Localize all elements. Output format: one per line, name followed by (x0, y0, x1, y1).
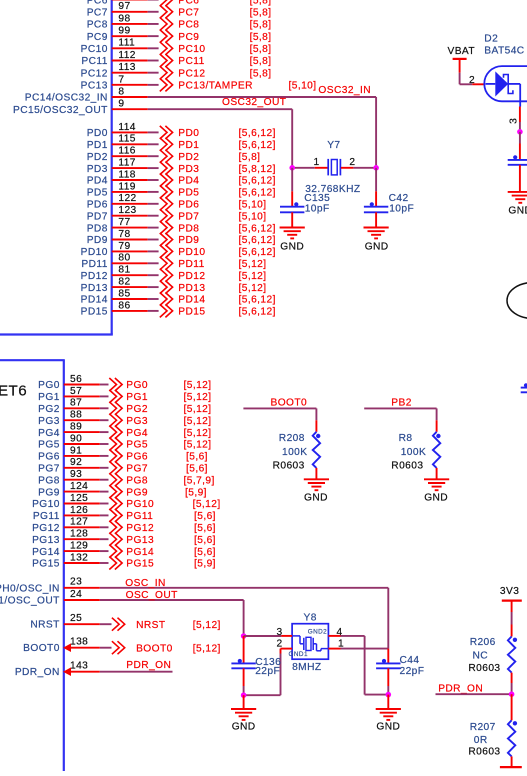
svg-text:PC8: PC8 (87, 20, 108, 31)
svg-text:57: 57 (70, 386, 82, 397)
IC pin PD10 (wire, pin number 79, off-page connector PD10 [5,6,12]) (81, 241, 276, 258)
svg-text:[5,6]: [5,6] (194, 523, 216, 534)
svg-text:98: 98 (118, 13, 130, 24)
ground symbol GND (C44) (376, 695, 401, 733)
svg-text:PD8: PD8 (178, 223, 199, 234)
svg-text:PC6: PC6 (178, 0, 199, 6)
IC pin PH1/OSC_OUT (pin 24), net OSC_OUT wire (0, 589, 244, 607)
IC pin PC12 (wire, pin number, off-page connector PC12 [5,8]) (81, 62, 272, 79)
svg-text:0R: 0R (474, 735, 488, 746)
svg-text:[5,6,12]: [5,6,12] (239, 140, 276, 151)
svg-text:PD15: PD15 (81, 307, 108, 318)
svg-text:GND2: GND2 (308, 628, 327, 635)
IC pin PG3 (wire, pin number 88, off-page connector PG3 [5,12]) (38, 410, 211, 427)
svg-text:[5,9]: [5,9] (185, 487, 207, 498)
resistor R206 NC R0603 (468, 625, 517, 695)
svg-text:81: 81 (118, 265, 130, 276)
IC pin PD5 (wire, pin number 119, off-page connector PD5 [5,6,12]) (87, 181, 276, 198)
svg-text:[5,9]: [5,9] (194, 559, 216, 570)
svg-text:123: 123 (118, 205, 136, 216)
node B: junction OSC32_IN / Y7.2 / C42 (373, 165, 379, 171)
svg-text:[5,8]: [5,8] (250, 7, 272, 18)
svg-text:PD6: PD6 (178, 200, 199, 211)
svg-text:NRST: NRST (136, 620, 165, 631)
svg-text:GND: GND (365, 242, 389, 253)
svg-text:[5,12]: [5,12] (193, 499, 221, 510)
svg-text:92: 92 (70, 457, 82, 468)
IC pin PG6 (wire, pin number 91, off-page connector PG6 [5,6]) (38, 445, 208, 462)
wire OSC32_OUT vertical to Y7 pin1 node (291, 109, 293, 168)
svg-text:[5,12]: [5,12] (193, 643, 221, 654)
svg-text:PD2: PD2 (178, 152, 199, 163)
svg-text:PG1: PG1 (126, 392, 148, 403)
svg-text:[5,6]: [5,6] (194, 511, 216, 522)
svg-text:PG2: PG2 (126, 404, 148, 415)
Y8 pin 3 (277, 627, 293, 638)
svg-text:PG13: PG13 (126, 535, 154, 546)
svg-text:PD3: PD3 (178, 164, 199, 175)
ground symbol GND (C135) (280, 228, 305, 253)
node D: junction OSC_OUT / Y8.3 / C136 (241, 633, 282, 639)
svg-text:PG10: PG10 (32, 499, 60, 510)
svg-text:114: 114 (118, 122, 136, 133)
svg-text:129: 129 (70, 541, 88, 552)
IC pin PG4 (wire, pin number 89, off-page connector PG4 [5,12]) (38, 422, 211, 439)
svg-text:OSC_IN: OSC_IN (125, 578, 165, 589)
svg-text:R0603: R0603 (391, 460, 423, 471)
svg-text:PG9: PG9 (38, 487, 60, 498)
svg-text:86: 86 (118, 300, 130, 311)
svg-text:PG14: PG14 (32, 547, 60, 558)
svg-text:PD12: PD12 (81, 271, 108, 282)
wire OSC_IN vertical to Y8 pin 1 (387, 588, 389, 649)
IC pin PG7 (wire, pin number 92, off-page connector PG7 [5,6]) (38, 457, 208, 474)
svg-text:[5,12]: [5,12] (193, 620, 221, 631)
svg-text:D2: D2 (484, 34, 498, 45)
svg-text:[5,8]: [5,8] (250, 44, 272, 55)
svg-text:PG1: PG1 (38, 392, 60, 403)
svg-text:100K: 100K (282, 447, 307, 458)
svg-text:PD9: PD9 (87, 235, 108, 246)
IC pin PD3 (wire, pin number 117, off-page connector PD3 [5,8,12]) (87, 158, 276, 175)
resistor R8 100K R0603 (391, 420, 440, 479)
svg-text:PD15: PD15 (178, 307, 205, 318)
IC pin PC10 (wire, pin number, off-page connector PC10 [5,8]) (81, 38, 272, 55)
IC pin PG9 (wire, pin number 124, off-page connector PG9 [5,9]) (38, 481, 207, 498)
svg-text:PDR_ON: PDR_ON (438, 684, 483, 695)
svg-text:PD0: PD0 (87, 128, 108, 139)
svg-text:116: 116 (118, 146, 136, 157)
svg-text:[5,8]: [5,8] (250, 32, 272, 43)
svg-text:R0603: R0603 (468, 747, 500, 758)
svg-text:OSC32_IN: OSC32_IN (318, 85, 371, 96)
svg-text:R0603: R0603 (273, 460, 305, 471)
svg-text:[5,8]: [5,8] (239, 152, 261, 163)
svg-text:113: 113 (118, 62, 136, 73)
svg-text:PG8: PG8 (38, 475, 60, 486)
wire OSC32_IN vertical to Y7 pin2 node (375, 97, 377, 168)
svg-text:[5,12]: [5,12] (184, 428, 212, 439)
svg-text:78: 78 (118, 229, 130, 240)
svg-text:56: 56 (70, 374, 82, 385)
svg-text:PG5: PG5 (38, 440, 60, 451)
svg-text:89: 89 (70, 422, 82, 433)
svg-text:NRST: NRST (30, 620, 59, 631)
IC pin PC15/OSC32_OUT (pin 9) wire, net OSC32_OUT (13, 97, 292, 116)
IC pin PD4 (wire, pin number 118, off-page connector PD4 [5,6,12]) (87, 169, 276, 186)
IC pin PD2 (wire, pin number 116, off-page connector PD2 [5,8]) (87, 146, 261, 163)
IC pin PG2 (wire, pin number 87, off-page connector PG2 [5,12]) (38, 398, 211, 415)
svg-text:PG12: PG12 (126, 523, 154, 534)
svg-text:GND: GND (232, 722, 256, 733)
svg-text:[5,6,12]: [5,6,12] (239, 295, 276, 306)
svg-text:124: 124 (70, 481, 88, 492)
svg-text:PD1: PD1 (178, 140, 199, 151)
svg-text:PD12: PD12 (178, 271, 205, 282)
crystal Y8 8MHZ (4-pin) (289, 613, 329, 673)
svg-text:C44: C44 (400, 655, 420, 666)
svg-text:8MHZ: 8MHZ (292, 662, 321, 673)
svg-text:[5,12]: [5,12] (184, 440, 212, 451)
IC pin PC13 (wire, pin number, off-page connector PC13/TAMPER [5,10]) (81, 74, 317, 91)
diode D2 BAT54C pin 2 (469, 75, 484, 86)
svg-text:[5,6]: [5,6] (186, 452, 208, 463)
IC pin PG0 (wire, pin number 56, off-page connector PG0 [5,12]) (38, 374, 211, 391)
svg-text:R8: R8 (399, 433, 413, 444)
svg-text:Y7: Y7 (327, 140, 340, 151)
Y8 pin 2 (GND1) wire (244, 638, 293, 695)
svg-text:GND: GND (376, 722, 400, 733)
svg-text:R0603: R0603 (468, 663, 500, 674)
svg-text:[5,8,12]: [5,8,12] (239, 164, 276, 175)
svg-text:[5,12]: [5,12] (239, 259, 267, 270)
svg-text:PD11: PD11 (81, 259, 107, 270)
svg-text:9: 9 (118, 99, 124, 110)
svg-text:PC7: PC7 (87, 7, 108, 18)
IC U1 box (lower part, PG bank), value ...ET6 (0, 360, 65, 771)
svg-text:PG11: PG11 (33, 511, 60, 522)
wire 3V3 to R206 (511, 612, 513, 625)
svg-text:C135: C135 (304, 193, 330, 204)
capacitor (partial, right edge near PB2) (521, 383, 527, 392)
svg-text:PC10: PC10 (178, 44, 205, 55)
svg-text:PD13: PD13 (81, 283, 108, 294)
IC pin PD15 (wire, pin number 86, off-page connector PD15 [5,6,12]) (81, 300, 276, 317)
capacitor C44 22pF (376, 649, 424, 695)
IC pin PD7 (wire, pin number 123, off-page connector PD7 [5,10]) (87, 205, 267, 222)
svg-text:126: 126 (70, 505, 88, 516)
svg-text:2: 2 (349, 157, 355, 168)
svg-text:[5,6,12]: [5,6,12] (239, 235, 276, 246)
IC pin PD14 (wire, pin number 85, off-page connector PD14 [5,6,12]) (81, 288, 276, 305)
svg-text:PD6: PD6 (87, 200, 108, 211)
svg-text:24: 24 (70, 589, 82, 600)
svg-text:[5,6,12]: [5,6,12] (239, 223, 276, 234)
svg-text:R206: R206 (470, 637, 496, 648)
svg-text:22pF: 22pF (400, 666, 425, 677)
IC U1 box (upper part, PC/PD bank) (0, 0, 113, 335)
svg-text:1: 1 (314, 157, 320, 168)
node A: junction OSC32_OUT / Y7.1 / C135 (289, 165, 295, 171)
svg-text:[5,12]: [5,12] (184, 404, 212, 415)
svg-text:PC9: PC9 (178, 32, 199, 43)
svg-text:PG0: PG0 (38, 380, 60, 391)
IC pin PD1 (wire, pin number 115, off-page connector PD1 [5,6,12]) (87, 134, 276, 151)
ground symbol GND (backup cap) (508, 192, 527, 217)
svg-text:[5,8]: [5,8] (250, 20, 272, 31)
node F: junction C44 / Y8.4 / GND (386, 692, 392, 698)
svg-text:PG8: PG8 (126, 475, 148, 486)
ground symbol GND (C136) (231, 695, 256, 732)
svg-text:GND: GND (424, 493, 448, 504)
svg-text:3V3: 3V3 (500, 586, 519, 597)
svg-text:PG4: PG4 (126, 428, 148, 439)
IC pin PC6 (wire, pin number, off-page connector PC6 [5,8]) (87, 0, 272, 6)
diode D2 BAT54C body (484, 34, 527, 107)
svg-text:PG10: PG10 (126, 499, 154, 510)
svg-text:PD9: PD9 (178, 235, 199, 246)
svg-text:BOOT0: BOOT0 (23, 643, 60, 654)
svg-text:PC11: PC11 (178, 56, 204, 67)
svg-text:PD2: PD2 (87, 152, 108, 163)
svg-text:115: 115 (118, 134, 136, 145)
svg-text:93: 93 (70, 469, 82, 480)
ground symbol GND (R208) (304, 479, 329, 503)
svg-text:100K: 100K (401, 447, 426, 458)
wire VBAT to D2 pin 2 (460, 73, 473, 85)
svg-text:PD10: PD10 (178, 247, 205, 258)
svg-text:[5,6]: [5,6] (194, 547, 216, 558)
svg-text:PG9: PG9 (126, 487, 148, 498)
svg-text:PD4: PD4 (178, 176, 199, 187)
svg-text:128: 128 (70, 529, 88, 540)
svg-text:[5,7,9]: [5,7,9] (184, 475, 215, 486)
node C: junction D2.3 / backup capacitor (517, 129, 523, 135)
IC pin PD9 (wire, pin number 78, off-page connector PD9 [5,6,12]) (87, 229, 276, 246)
svg-text:PC8: PC8 (178, 20, 199, 31)
svg-text:BOOT0: BOOT0 (136, 643, 173, 654)
IC pin PC7 (wire, pin number, off-page connector PC7 [5,8]) (87, 1, 272, 18)
svg-text:PC13: PC13 (81, 81, 108, 92)
svg-text:[5,10]: [5,10] (289, 81, 317, 92)
svg-text:PG5: PG5 (126, 440, 148, 451)
IC pin PG10 (wire, pin number 125, off-page connector PG10 [5,12]) (32, 493, 221, 510)
IC pin PD13 (wire, pin number 82, off-page connector PD13 [5,12]) (81, 277, 267, 294)
svg-text:111: 111 (118, 38, 135, 49)
svg-text:8: 8 (118, 86, 124, 97)
svg-text:25: 25 (70, 613, 82, 624)
svg-text:88: 88 (70, 410, 82, 421)
svg-text:PC12: PC12 (81, 68, 108, 79)
svg-text:91: 91 (70, 445, 82, 456)
svg-text:[5,6,12]: [5,6,12] (239, 128, 276, 139)
svg-text:143: 143 (70, 661, 88, 672)
svg-text:PC12: PC12 (178, 68, 205, 79)
svg-text:[5,6]: [5,6] (186, 464, 208, 475)
svg-text:PD0: PD0 (178, 128, 199, 139)
svg-text:77: 77 (118, 217, 130, 228)
svg-text:[5,12]: [5,12] (239, 271, 267, 282)
svg-text:[5,10]: [5,10] (239, 211, 267, 222)
IC pin PG13 (wire, pin number 128, off-page connector PG13 [5,6]) (32, 529, 216, 546)
svg-text:PC13/TAMPER: PC13/TAMPER (178, 81, 253, 92)
svg-text:PD3: PD3 (87, 164, 108, 175)
svg-text:[5,6,12]: [5,6,12] (239, 307, 276, 318)
Y8 pin 4 (GND2) wire (328, 627, 388, 695)
svg-text:85: 85 (118, 288, 130, 299)
svg-text:[5,12]: [5,12] (184, 416, 212, 427)
svg-text:[5,8]: [5,8] (250, 0, 272, 6)
wire OSC_OUT vertical to node D (243, 600, 245, 636)
svg-text:PD7: PD7 (178, 211, 199, 222)
svg-text:PD10: PD10 (81, 247, 108, 258)
IC pin PH0/OSC_IN (pin 23), net OSC_IN wire to Y8 (0, 577, 388, 595)
capacitor C135 10pF (280, 168, 330, 228)
svg-text:[5,12]: [5,12] (239, 283, 267, 294)
svg-text:[5,6,12]: [5,6,12] (239, 247, 276, 258)
IC pin PC8 (wire, pin number, off-page connector PC8 [5,8]) (87, 13, 272, 30)
svg-text:PG15: PG15 (126, 559, 154, 570)
svg-text:VBAT: VBAT (448, 46, 476, 57)
IC pin PG11 (wire, pin number 126, off-page connector PG11 [5,6]) (33, 505, 216, 522)
Y8 pin 1 wire (328, 638, 388, 649)
svg-text:[5,6]: [5,6] (194, 535, 216, 546)
svg-text:R207: R207 (470, 722, 496, 733)
svg-text:PH1/OSC_OUT: PH1/OSC_OUT (0, 596, 60, 607)
resistor R207 0R R0603 (468, 694, 517, 766)
svg-text:GND1: GND1 (289, 651, 308, 658)
svg-text:PD5: PD5 (87, 188, 108, 199)
svg-text:BAT54C: BAT54C (484, 46, 524, 57)
annotation balloon (partial ellipse at right edge) (507, 283, 527, 319)
IC pin PDR_ON (pin 143) input arrow, net PDR_ON (15, 660, 173, 678)
svg-text:PG3: PG3 (126, 416, 148, 427)
node G: junction R206 / R207 / PDR_ON (509, 691, 515, 697)
IC pin NRST (pin 25), off-page connector NRST [5,12] (30, 613, 220, 631)
svg-text:23: 23 (70, 577, 82, 588)
svg-text:125: 125 (70, 493, 88, 504)
svg-text:PD7: PD7 (87, 211, 108, 222)
svg-text:90: 90 (70, 433, 82, 444)
svg-text:PG6: PG6 (38, 452, 60, 463)
IC pin PG8 (wire, pin number 93, off-page connector PG8 [5,7,9]) (38, 469, 215, 486)
svg-text:PC11: PC11 (81, 56, 107, 67)
IC pin PG5 (wire, pin number 90, off-page connector PG5 [5,12]) (38, 433, 211, 450)
svg-text:122: 122 (118, 193, 136, 204)
svg-text:PC15/OSC32_OUT: PC15/OSC32_OUT (13, 105, 108, 116)
svg-text:[5,6,12]: [5,6,12] (239, 188, 276, 199)
ground symbol GND (C42) (364, 228, 389, 253)
svg-text:[5,8]: [5,8] (250, 56, 272, 67)
IC pin PD12 (wire, pin number 81, off-page connector PD12 [5,12]) (81, 265, 267, 282)
svg-text:PD8: PD8 (87, 223, 108, 234)
net PB2 wire to R8 (364, 398, 436, 421)
svg-text:138: 138 (70, 637, 88, 648)
diode D2 pin 3 wire down (509, 107, 520, 132)
svg-text:NC: NC (473, 651, 489, 662)
svg-text:PH0/OSC_IN: PH0/OSC_IN (0, 584, 60, 595)
svg-text:PD14: PD14 (81, 295, 108, 306)
svg-text:132: 132 (70, 552, 88, 563)
svg-text:118: 118 (118, 169, 136, 180)
svg-text:112: 112 (118, 50, 136, 61)
svg-text:PG13: PG13 (32, 535, 60, 546)
svg-text:PG15: PG15 (32, 559, 60, 570)
IC pin PC11 (wire, pin number, off-page connector PC11 [5,8]) (81, 50, 271, 67)
svg-text:PG3: PG3 (38, 416, 60, 427)
IC pin PC9 (wire, pin number, off-page connector PC9 [5,8]) (87, 26, 272, 43)
svg-text:22pF: 22pF (255, 666, 280, 677)
svg-text:[5,12]: [5,12] (184, 380, 212, 391)
svg-text:R208: R208 (279, 433, 305, 444)
svg-text:119: 119 (118, 181, 136, 192)
svg-text:117: 117 (118, 158, 136, 169)
svg-text:PC10: PC10 (81, 44, 108, 55)
svg-text:[5,8]: [5,8] (250, 68, 272, 79)
svg-text:Y8: Y8 (304, 613, 317, 624)
svg-text:BOOT0: BOOT0 (271, 398, 308, 409)
svg-text:3: 3 (277, 627, 283, 638)
svg-text:PG4: PG4 (38, 428, 60, 439)
svg-text:PG12: PG12 (32, 523, 60, 534)
svg-text:[5,6,12]: [5,6,12] (239, 176, 276, 187)
svg-text:PB2: PB2 (391, 398, 412, 409)
svg-text:7: 7 (118, 74, 124, 85)
power symbol VBAT (448, 46, 476, 73)
svg-text:PDR_ON: PDR_ON (15, 667, 60, 678)
svg-text:97: 97 (118, 1, 130, 12)
net BOOT0 wire to R208 (243, 398, 316, 421)
resistor R208 100K R0603 (273, 420, 321, 479)
svg-text:PG14: PG14 (126, 547, 154, 558)
svg-text:80: 80 (118, 253, 130, 264)
svg-text:PG0: PG0 (126, 380, 148, 391)
svg-text:ET6: ET6 (0, 382, 27, 399)
IC pin PD8 (wire, pin number 77, off-page connector PD8 [5,6,12]) (87, 217, 276, 234)
svg-text:127: 127 (70, 517, 88, 528)
svg-text:87: 87 (70, 398, 82, 409)
IC pin PG12 (wire, pin number 127, off-page connector PG12 [5,6]) (32, 517, 216, 534)
svg-text:GND: GND (280, 242, 304, 253)
svg-text:[5,12]: [5,12] (184, 392, 212, 403)
svg-text:PD1: PD1 (87, 140, 108, 151)
svg-text:82: 82 (118, 277, 130, 288)
svg-text:PG2: PG2 (38, 404, 60, 415)
ground symbol GND (R8) (424, 479, 449, 503)
svg-text:PD4: PD4 (87, 176, 108, 187)
svg-text:PD14: PD14 (178, 295, 205, 306)
crystal Y7 32.768KHZ with pins 1,2 (292, 140, 376, 195)
svg-text:PG11: PG11 (126, 511, 153, 522)
IC pin PG15 (wire, pin number 132, off-page connector PG15 [5,9]) (32, 552, 216, 569)
IC pin PD0 (wire, pin number 114, off-page connector PD0 [5,6,12]) (87, 122, 276, 139)
capacitor (backup, right edge) (508, 132, 527, 192)
svg-text:PD5: PD5 (178, 188, 199, 199)
svg-text:79: 79 (118, 241, 130, 252)
svg-text:PD11: PD11 (178, 259, 204, 270)
node E: junction C136 / Y8.2 / GND (241, 692, 247, 698)
svg-text:PC14/OSC32_IN: PC14/OSC32_IN (25, 93, 108, 104)
IC pin PC14/OSC32_IN (pin 8) wire, net OSC32_IN (25, 85, 376, 104)
net PDR_ON wire (436, 684, 512, 695)
svg-text:PG7: PG7 (126, 464, 148, 475)
svg-text:GND: GND (304, 493, 328, 504)
power symbol (bottom, partial) (500, 766, 522, 768)
svg-text:PC6: PC6 (87, 0, 108, 6)
svg-text:PDR_ON: PDR_ON (126, 660, 171, 671)
svg-text:PD13: PD13 (178, 283, 205, 294)
svg-text:GND: GND (508, 206, 527, 217)
